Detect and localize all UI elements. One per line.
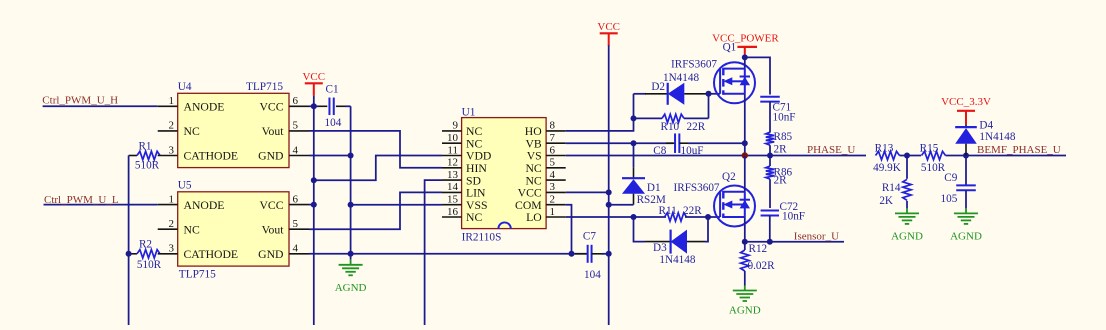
junction R10/left riser: [631, 115, 637, 121]
pin 8 HO U1: [546, 130, 566, 132]
svg-text:NC: NC: [466, 211, 482, 224]
svg-text:14: 14: [447, 181, 459, 193]
svg-text:NC: NC: [466, 137, 482, 150]
junction snubber/phase: [767, 153, 773, 159]
svg-text:D3: D3: [653, 242, 667, 254]
transistor Q2 IRFS3607: [674, 171, 756, 226]
svg-text:NC: NC: [525, 162, 541, 175]
svg-text:4: 4: [293, 243, 299, 255]
svg-text:C9: C9: [944, 172, 957, 184]
svg-text:R15: R15: [920, 143, 939, 155]
junction C72/Isensor row: [767, 239, 773, 245]
svg-text:VCC: VCC: [518, 187, 542, 200]
pin 2 COM U1: [546, 204, 566, 206]
svg-text:R10: R10: [661, 121, 680, 133]
svg-text:Isensor_U: Isensor_U: [794, 231, 839, 243]
op-amp U1 gate driver IR2110S: [462, 106, 546, 243]
pin 6 VCC U4: [289, 105, 309, 107]
svg-text:R85: R85: [774, 131, 793, 143]
pin 10 NC U1: [442, 142, 462, 144]
svg-text:D2: D2: [651, 81, 665, 93]
diode D3 1N4148: [634, 217, 709, 266]
svg-text:IRFS3607: IRFS3607: [671, 59, 717, 71]
op-amp U4 optocoupler TLP715: [178, 81, 289, 167]
wire Q1 drain: [744, 55, 746, 69]
capacitor C1: [314, 83, 351, 129]
wire VB row: [566, 142, 673, 144]
svg-text:3: 3: [550, 181, 556, 193]
pin 1 ANODE U5: [158, 204, 178, 206]
junction D2/gate: [706, 91, 712, 97]
pin 5 NC U1: [546, 167, 566, 169]
pin 1 LO U1: [546, 216, 566, 218]
svg-text:9: 9: [453, 120, 459, 132]
capacitor C72 10nF: [761, 201, 805, 242]
pin 3 CATHODE U5: [158, 253, 178, 255]
pin 16 NC U1: [442, 216, 462, 218]
junction phase cross (maroon): [742, 152, 748, 158]
pin 13 SD U1: [442, 179, 462, 181]
junction R2 left: [126, 251, 132, 257]
svg-text:PHASE_U: PHASE_U: [807, 144, 855, 156]
wire VSS to AGND rail: [351, 204, 442, 206]
junction BEMF node: [963, 153, 969, 159]
svg-text:VCC_3.3V: VCC_3.3V: [941, 96, 991, 108]
svg-text:ANODE: ANODE: [184, 101, 225, 114]
resistor R10 22R: [634, 94, 709, 133]
svg-text:2R: 2R: [774, 175, 788, 187]
wire Q2 drain: [744, 156, 746, 192]
wire Ctrl_PWM_U_L: [44, 204, 158, 206]
resistor R2: [129, 238, 162, 270]
svg-text:4: 4: [550, 169, 556, 181]
wire Isensor_U: [745, 241, 844, 243]
junction C8/source: [742, 140, 748, 146]
wire COM down to C7: [566, 205, 572, 254]
wire Q2 source: [744, 217, 746, 242]
junction U5.VCC/rail: [311, 202, 317, 208]
resistor R11 22R: [659, 205, 721, 221]
wire VCC right rail: [608, 45, 610, 325]
wire U4 GND to AGND rail: [309, 155, 351, 157]
resistor R14 2K: [879, 156, 911, 209]
svg-text:VDD: VDD: [466, 150, 491, 163]
pin 6 VCC U5: [289, 204, 309, 206]
diode D4 1N4148: [955, 120, 1016, 156]
wire SD down off-sheet: [425, 180, 442, 325]
svg-text:R12: R12: [749, 243, 768, 255]
svg-text:R11: R11: [659, 205, 677, 217]
svg-text:2K: 2K: [879, 195, 893, 207]
junction R11/D3 right: [705, 214, 711, 220]
pin 9 NC U1: [442, 130, 462, 132]
wire Ctrl_PWM_U_H: [43, 105, 158, 107]
wire U4.Vout to HIN: [309, 131, 442, 168]
svg-text:104: 104: [325, 117, 342, 129]
svg-text:2: 2: [169, 218, 175, 230]
svg-text:6: 6: [293, 193, 299, 205]
pin 11 VDD U1: [442, 155, 462, 157]
junction VCC rail/VDD: [311, 177, 317, 183]
svg-text:AGND: AGND: [335, 282, 367, 294]
svg-text:49.9K: 49.9K: [873, 162, 901, 174]
pin 3 CATHODE U4: [158, 155, 178, 157]
wire snubber branch: [745, 57, 770, 94]
pin 2 NC U5: [158, 228, 178, 230]
pin 5 Vout U5: [289, 228, 309, 230]
svg-text:510R: 510R: [137, 259, 162, 271]
svg-text:Vout: Vout: [262, 125, 285, 138]
wire gate Q1: [709, 93, 721, 95]
svg-text:BEMF_PHASE_U: BEMF_PHASE_U: [977, 144, 1061, 156]
svg-text:AGND: AGND: [729, 305, 761, 317]
svg-text:1: 1: [169, 193, 175, 205]
svg-text:Ctrl_PWM_U_L: Ctrl_PWM_U_L: [44, 194, 119, 206]
ground AGND (R14): [906, 208, 908, 213]
junction VCC/U4.6: [311, 103, 317, 109]
pin 4 GND U5: [289, 253, 309, 255]
resistor R13 49.9K: [873, 143, 921, 174]
svg-text:Ctrl_PWM_U_H: Ctrl_PWM_U_H: [42, 95, 118, 107]
resistor R1: [129, 140, 160, 171]
svg-text:C1: C1: [326, 83, 339, 95]
svg-text:2R: 2R: [774, 143, 788, 155]
svg-text:D4: D4: [979, 120, 993, 132]
svg-text:GND: GND: [258, 248, 283, 261]
op-amp U5 optocoupler TLP715: [178, 180, 289, 281]
wire VDD feed from VCC rail: [314, 156, 442, 181]
svg-text:2: 2: [550, 194, 556, 206]
svg-text:13: 13: [447, 169, 459, 181]
svg-text:11: 11: [447, 144, 458, 156]
svg-text:22R: 22R: [687, 121, 706, 133]
svg-text:VCC: VCC: [259, 199, 283, 212]
resistor R15 510R: [920, 143, 966, 174]
svg-text:3: 3: [169, 144, 175, 156]
wire R1 cathode rail down: [128, 156, 130, 326]
svg-text:ANODE: ANODE: [184, 199, 225, 212]
wire VS-PHASE row: [566, 155, 745, 157]
svg-text:AGND: AGND: [891, 230, 923, 242]
svg-text:1: 1: [169, 95, 175, 107]
wire AGND rail (C1 right): [350, 106, 352, 259]
svg-text:1N4148: 1N4148: [979, 131, 1015, 143]
pin 3 VCC U1: [546, 191, 566, 193]
svg-text:R1: R1: [138, 140, 151, 152]
svg-text:R14: R14: [882, 182, 901, 194]
svg-text:RS2M: RS2M: [637, 194, 666, 206]
svg-text:NC: NC: [525, 174, 541, 187]
junction C7/VCC rail: [606, 251, 612, 257]
pin 4 GND U4: [289, 155, 309, 157]
capacitor C8 10uF: [653, 133, 745, 156]
junction VSS/AGND rail: [348, 202, 354, 208]
svg-text:SD: SD: [466, 174, 481, 187]
svg-text:VCC_POWER: VCC_POWER: [712, 32, 779, 44]
svg-text:104: 104: [584, 269, 601, 281]
svg-text:D1: D1: [647, 182, 661, 194]
wire U5.Vout to LIN: [309, 192, 442, 229]
wire HO to gate network: [566, 94, 634, 131]
svg-text:15: 15: [447, 194, 459, 206]
junction VB/D1: [631, 140, 637, 146]
svg-text:COM: COM: [515, 199, 542, 212]
svg-text:5: 5: [293, 120, 299, 132]
junction COM/C7 row: [569, 251, 575, 257]
svg-text:510R: 510R: [135, 159, 160, 171]
pin 5 Vout U4: [289, 130, 309, 132]
junction R13/R14/R15: [904, 153, 910, 159]
svg-text:TLP715: TLP715: [179, 268, 216, 280]
ground AGND (Q2 shunt): [744, 286, 746, 291]
svg-text:1N4148: 1N4148: [659, 254, 695, 266]
svg-text:3: 3: [169, 243, 175, 255]
svg-text:5: 5: [293, 218, 299, 230]
wire U5.GND row to C7: [309, 253, 588, 255]
svg-text:22R: 22R: [683, 205, 702, 217]
svg-text:12: 12: [447, 157, 458, 169]
resistor R12 0.02R: [741, 242, 775, 286]
svg-text:VCC: VCC: [302, 71, 325, 83]
svg-text:6: 6: [550, 144, 556, 156]
pin 14 LIN U1: [442, 191, 462, 193]
svg-text:U1: U1: [462, 106, 476, 118]
junction LO/D3 left: [631, 214, 637, 220]
wire Q1 source to phase: [744, 94, 746, 156]
resistor R85 2R: [766, 131, 793, 156]
svg-text:Vout: Vout: [262, 223, 285, 236]
svg-text:8: 8: [550, 120, 556, 132]
svg-text:HO: HO: [525, 125, 542, 138]
svg-text:VSS: VSS: [466, 199, 487, 212]
wire U1.VCC to rail: [566, 191, 609, 193]
resistor R86 2R: [766, 156, 793, 209]
svg-text:VS: VS: [527, 150, 542, 163]
pin 6 VS U1: [546, 155, 566, 157]
junction Q2 source: [742, 239, 748, 245]
wire U5 VCC to rail: [309, 204, 314, 206]
svg-text:TLP715: TLP715: [246, 81, 283, 93]
pin 1 ANODE U4: [158, 105, 178, 107]
svg-text:10nF: 10nF: [782, 211, 805, 223]
ground AGND (mid): [350, 260, 352, 265]
svg-text:4: 4: [293, 144, 299, 156]
svg-text:16: 16: [447, 206, 459, 218]
diode D1 RS2M: [609, 143, 666, 206]
junction drain/snubber: [742, 54, 748, 60]
wire VCC rail left: [313, 96, 315, 325]
svg-text:10nF: 10nF: [773, 111, 796, 123]
svg-text:IR2110S: IR2110S: [462, 231, 502, 243]
pin 12 HIN U1: [442, 167, 462, 169]
svg-text:5: 5: [550, 157, 556, 169]
junction U4.GND/rail: [348, 153, 354, 159]
capacitor C71 10nF: [760, 97, 795, 133]
ground AGND (C9): [965, 208, 967, 213]
svg-text:105: 105: [941, 193, 958, 205]
svg-text:IRFS3607: IRFS3607: [674, 182, 720, 194]
svg-text:7: 7: [550, 132, 556, 144]
svg-text:Q2: Q2: [722, 171, 736, 183]
svg-text:1: 1: [550, 206, 556, 218]
svg-text:NC: NC: [184, 223, 200, 236]
svg-text:R13: R13: [875, 143, 894, 155]
svg-text:CATHODE: CATHODE: [184, 150, 239, 163]
svg-text:U4: U4: [178, 81, 192, 93]
svg-text:1N4148: 1N4148: [663, 72, 699, 84]
svg-text:6: 6: [293, 95, 299, 107]
svg-text:510R: 510R: [921, 162, 946, 174]
junction U1.VCC/rail: [606, 189, 612, 195]
svg-text:R2: R2: [139, 238, 152, 250]
svg-text:NC: NC: [466, 125, 482, 138]
svg-text:C7: C7: [583, 230, 596, 242]
transistor Q1 IRFS3607: [671, 41, 755, 103]
svg-text:U5: U5: [178, 180, 192, 192]
svg-text:LO: LO: [526, 211, 542, 224]
svg-text:VCC: VCC: [597, 21, 620, 33]
wire LO row: [566, 216, 666, 218]
svg-text:NC: NC: [184, 125, 200, 138]
svg-text:LIN: LIN: [466, 187, 486, 200]
svg-text:2: 2: [169, 120, 175, 132]
diode D2 1N4148: [634, 72, 709, 105]
pin 4 NC U1: [546, 179, 566, 181]
svg-text:CATHODE: CATHODE: [184, 248, 239, 261]
junction U5.GND/AGND rail: [348, 251, 354, 257]
svg-text:0.02R: 0.02R: [748, 260, 776, 272]
svg-text:10: 10: [447, 132, 459, 144]
svg-text:GND: GND: [258, 150, 283, 163]
svg-text:VB: VB: [525, 137, 541, 150]
wire U4 VCC to rail: [309, 105, 314, 107]
pin 15 VSS U1: [442, 204, 462, 206]
svg-text:AGND: AGND: [950, 230, 982, 242]
wire BEMF_PHASE_U: [966, 155, 1066, 157]
junction D1/VCC rail: [606, 202, 612, 208]
pin 7 VB U1: [546, 142, 566, 144]
capacitor C7: [575, 230, 609, 281]
capacitor C9 105: [941, 156, 976, 209]
notch U1 bottom: [498, 222, 510, 228]
pin 2 NC U4: [158, 130, 178, 132]
svg-text:HIN: HIN: [466, 162, 487, 175]
svg-text:VCC: VCC: [259, 101, 283, 114]
